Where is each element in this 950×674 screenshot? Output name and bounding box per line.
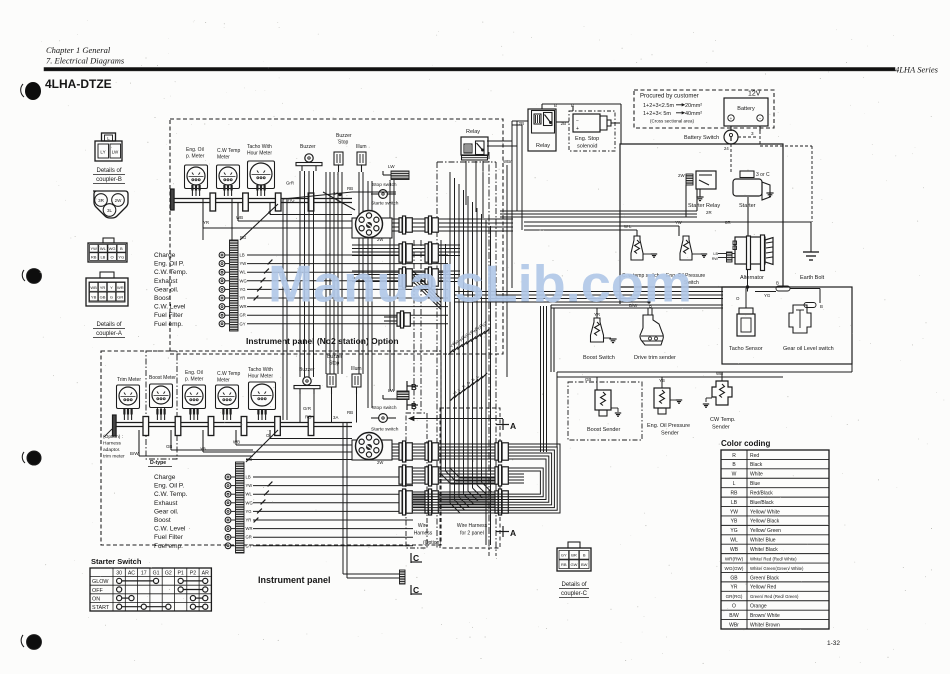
- top harness connector row 2: [399, 242, 438, 264]
- round coupler 3R 2W 3L: [93, 191, 128, 218]
- svg-text:White/ Brown: White/ Brown: [750, 622, 780, 628]
- wire count tick marks lower: [450, 373, 487, 401]
- details of coupler-B label: [93, 168, 125, 184]
- rotated wire id labels lower: [453, 375, 480, 396]
- svg-text:Details of: Details of: [561, 582, 586, 588]
- color coding table: [721, 439, 829, 629]
- svg-text:YG: YG: [246, 509, 252, 514]
- svg-text:Yellow/ Red: Yellow/ Red: [750, 585, 776, 591]
- svg-text:Boost Sender: Boost Sender: [587, 427, 620, 433]
- boost switch sub box: [551, 305, 723, 372]
- bottom harness wire row 2: [413, 468, 495, 483]
- svg-text:Instrument panel: Instrument panel: [258, 575, 331, 585]
- engine supply wires: [524, 197, 811, 236]
- boost meter (bottom panel): [149, 375, 176, 420]
- svg-text:L: L: [733, 481, 736, 487]
- svg-text:WL: WL: [730, 538, 738, 544]
- rotated wire id labels upper: [450, 320, 489, 348]
- svg-text:YW: YW: [246, 483, 253, 488]
- coupler-C connector detail: [557, 542, 591, 571]
- relay1 output wires: [466, 141, 517, 218]
- svg-text:40mm²: 40mm²: [685, 111, 702, 117]
- boost sender dashed box: [568, 382, 642, 440]
- svg-text:4LHA-DTZE: 4LHA-DTZE: [45, 77, 112, 91]
- B arrow reference 1: [407, 381, 418, 392]
- trim meter (bottom panel): [117, 377, 142, 420]
- svg-text:Sender: Sender: [712, 425, 730, 431]
- svg-text:coupler-B: coupler-B: [96, 177, 122, 183]
- svg-text:WB: WB: [730, 547, 739, 553]
- svg-text:Boost: Boost: [154, 295, 171, 302]
- bottom list tick marks: [254, 482, 273, 523]
- bottom harness connector column 3: [495, 441, 508, 515]
- svg-text:coupler-A: coupler-A: [96, 331, 122, 337]
- svg-text:O: O: [736, 296, 740, 301]
- starter relay feed wires: [500, 185, 697, 217]
- svg-text:A: A: [510, 528, 516, 538]
- svg-text:White/ Blue: White/ Blue: [750, 538, 776, 544]
- svg-text:YR: YR: [100, 285, 106, 290]
- eng oil p meter (bottom panel): [183, 370, 206, 420]
- boost switch (engine): [583, 308, 617, 361]
- page title 4LHA-DTZE: [45, 77, 112, 91]
- header chapter title: [46, 45, 125, 66]
- starter key switch (bottom panel): [352, 427, 399, 466]
- svg-text:WG: WG: [240, 278, 247, 283]
- earth bolt: [800, 222, 825, 281]
- starter switch table: [90, 557, 211, 611]
- svg-text:C.W. Level: C.W. Level: [154, 526, 186, 533]
- tacho sensor: [729, 288, 763, 352]
- relay (engine): [519, 103, 557, 149]
- binding hole dot 3: [22, 451, 41, 465]
- top harness bundle row 3: [352, 271, 460, 282]
- binding hole dot 4: [21, 635, 41, 650]
- svg-text:Green/ Red (Red/ Green): Green/ Red (Red/ Green): [750, 594, 799, 599]
- eng oil pressure switch (engine): [666, 236, 707, 286]
- svg-text:GR(RG): GR(RG): [726, 594, 743, 599]
- svg-text:Gear oil.: Gear oil.: [154, 508, 179, 515]
- coupler-A connector detail lower: [86, 272, 128, 306]
- svg-text:Orange: Orange: [750, 604, 767, 610]
- RG diagonal wire top panel: [240, 204, 278, 240]
- svg-text:Alternator: Alternator: [740, 275, 764, 281]
- svg-text:WR: WR: [246, 526, 253, 531]
- svg-text:(Cross sectional area): (Cross sectional area): [650, 119, 695, 124]
- svg-text:LB: LB: [240, 253, 245, 258]
- bottom panel annunciator list: [154, 474, 235, 550]
- svg-text:p. Meter: p. Meter: [186, 154, 205, 160]
- top panel annunciator list: [154, 252, 229, 328]
- svg-text:Red/Black: Red/Black: [750, 490, 773, 496]
- svg-text:LW: LW: [112, 150, 119, 155]
- harness row2 stubs: [508, 474, 524, 483]
- svg-text:START: START: [92, 605, 110, 611]
- svg-text:Tacho Sensor: Tacho Sensor: [729, 346, 763, 352]
- svg-text:O: O: [732, 604, 736, 610]
- svg-text:Fuel emp.: Fuel emp.: [154, 321, 183, 328]
- svg-text:Stop switch: Stop switch: [372, 405, 397, 411]
- caption instrument panel: [258, 575, 331, 585]
- svg-text:Fuel Filter: Fuel Filter: [154, 312, 184, 319]
- svg-text:WR: WR: [117, 285, 124, 290]
- svg-text:YG: YG: [730, 528, 737, 534]
- coupler-B connector detail: [95, 133, 122, 161]
- svg-text:C: C: [413, 585, 419, 595]
- svg-text:Blue: Blue: [750, 481, 760, 487]
- svg-text:RB: RB: [91, 254, 97, 259]
- svg-text:Stop: Stop: [338, 140, 349, 146]
- starter relay (engine): [678, 171, 720, 215]
- svg-text:for 2 panel: for 2 panel: [460, 531, 484, 537]
- svg-text:ManualsLib.com: ManualsLib.com: [268, 256, 692, 314]
- svg-text:White/ Black: White/ Black: [750, 547, 778, 553]
- svg-text:B/W: B/W: [729, 613, 739, 619]
- svg-text:GY: GY: [240, 321, 246, 326]
- drive trim sender: [634, 308, 676, 361]
- svg-text:GB: GB: [100, 294, 106, 299]
- harness U-turn bundle: [413, 444, 560, 513]
- bottom buzzer and switch wires to bus: [300, 394, 357, 423]
- svg-text:3R: 3R: [98, 198, 105, 203]
- svg-text:2W: 2W: [377, 237, 383, 242]
- svg-text:coupler-C: coupler-C: [561, 591, 588, 597]
- svg-text:RB: RB: [347, 186, 353, 191]
- bottom panel dashed box: [101, 351, 441, 545]
- svg-text:WG: WG: [246, 500, 253, 505]
- relay vertical wires: [512, 121, 528, 288]
- svg-text:Eng. Oil P.: Eng. Oil P.: [154, 261, 184, 268]
- svg-text:Wire Harness: Wire Harness: [457, 523, 488, 529]
- details of coupler-A label: [93, 322, 125, 338]
- svg-text:Details of: Details of: [96, 322, 121, 328]
- svg-text:Buzzer: Buzzer: [300, 144, 316, 150]
- svg-text:LY: LY: [100, 150, 105, 155]
- dash-dot pair above harness box: [414, 240, 421, 413]
- svg-text:GW: GW: [571, 562, 578, 567]
- top panel list wire bundle: [247, 255, 448, 324]
- binding hole dot 1: [21, 82, 41, 100]
- trim meter option dash-dot box: [146, 351, 177, 459]
- procured by customer box: [634, 90, 774, 128]
- svg-text:YR: YR: [246, 518, 252, 523]
- svg-text:YB: YB: [91, 294, 97, 299]
- svg-text:GR: GR: [240, 313, 246, 318]
- engine sub box tacho gear: [722, 287, 852, 364]
- bottom panel bus connector blocks: [143, 417, 314, 436]
- dash-dot harness boundary left: [437, 162, 496, 548]
- option harness adaptor note: [103, 434, 125, 460]
- svg-text:Buzzer: Buzzer: [327, 354, 343, 360]
- starter motor: [725, 171, 774, 225]
- eng oil pressure meter (top panel): [185, 147, 208, 196]
- svg-text:GR: GR: [246, 535, 252, 540]
- A arrow reference 2: [496, 526, 516, 538]
- svg-text:WB: WB: [90, 285, 97, 290]
- svg-text:YB: YB: [200, 447, 206, 452]
- svg-text:W: W: [732, 472, 737, 478]
- header series label: [895, 65, 939, 75]
- top panel list connector bar: [230, 235, 247, 331]
- top panel dashed box (No2 station): [170, 119, 503, 354]
- svg-text:RW: RW: [712, 257, 719, 261]
- svg-text:Hour Meter: Hour Meter: [247, 151, 272, 157]
- svg-text:LW: LW: [388, 164, 395, 169]
- svg-text:1+2+3<2.5m: 1+2+3<2.5m: [643, 103, 674, 109]
- svg-text:Trim Meter: Trim Meter: [117, 377, 141, 383]
- bottom bus end cap: [104, 415, 116, 437]
- binding hole dot 2: [22, 269, 41, 284]
- svg-text:BR: BR: [571, 553, 577, 558]
- svg-text:Yellow/ Black: Yellow/ Black: [750, 519, 780, 525]
- svg-text:B: B: [820, 304, 823, 309]
- relay-solenoid wires: [542, 104, 621, 144]
- svg-text:WB: WB: [236, 215, 243, 220]
- svg-text:Chapter 1 General: Chapter 1 General: [46, 45, 111, 55]
- svg-text:Relay: Relay: [536, 143, 550, 149]
- A arrow reference 1: [409, 416, 516, 431]
- svg-text:RB: RB: [347, 410, 353, 415]
- svg-text:Wire: Wire: [418, 523, 428, 529]
- harness drop bundle to senders: [541, 306, 547, 452]
- svg-text:C: C: [413, 553, 419, 563]
- top panel meter bus wires: [172, 199, 352, 203]
- svg-text:G1: G1: [153, 571, 160, 577]
- svg-text:WB: WB: [233, 440, 240, 445]
- wire bus into key switch top: [283, 192, 396, 210]
- svg-text:Green/ Black: Green/ Black: [750, 575, 779, 581]
- svg-text:2W: 2W: [377, 460, 383, 465]
- cw temp meter (bottom panel): [216, 371, 241, 420]
- svg-text:ON: ON: [92, 596, 100, 602]
- svg-text:GY: GY: [482, 320, 489, 327]
- stop switch (bottom panel): [371, 405, 397, 422]
- svg-text:GLOW: GLOW: [92, 579, 109, 585]
- svg-text:GrR: GrR: [303, 406, 311, 411]
- relay (engine) outer box: [528, 109, 556, 151]
- svg-text:Battery: Battery: [737, 106, 755, 112]
- svg-text:Relay: Relay: [466, 129, 480, 135]
- buzzer (bottom panel): [294, 367, 320, 394]
- relay (panel) label: [466, 129, 480, 135]
- svg-text:LB: LB: [731, 500, 738, 506]
- svg-text:Harness: Harness: [103, 441, 121, 447]
- svg-text:WBr: WBr: [503, 159, 512, 164]
- svg-text:WG: WG: [109, 246, 116, 251]
- svg-text:Black: Black: [750, 462, 763, 468]
- svg-text:Eng. Stop: Eng. Stop: [575, 136, 599, 142]
- top harness bundle row 2: [352, 245, 460, 256]
- svg-text:(Option): (Option): [423, 540, 441, 546]
- svg-text:GrR: GrR: [286, 181, 294, 186]
- svg-text:Battery Switch: Battery Switch: [684, 135, 719, 141]
- wires top bus to bottom bus: [203, 199, 287, 420]
- eng stop solenoid dashed box: [569, 111, 615, 151]
- svg-text:Boost Switch: Boost Switch: [583, 355, 615, 361]
- svg-text:Buzzer: Buzzer: [299, 367, 315, 373]
- illum switch (bottom panel): [351, 366, 362, 394]
- svg-text:3 or C: 3 or C: [756, 172, 770, 178]
- relay (panel): [461, 137, 488, 160]
- svg-text:Fuel emp.: Fuel emp.: [154, 543, 183, 550]
- illum switch (top panel): [356, 144, 367, 172]
- svg-text:1-32: 1-32: [827, 640, 840, 647]
- details of coupler-C label: [559, 582, 589, 598]
- svg-text:YG: YG: [764, 293, 771, 298]
- svg-text:GB: GB: [166, 444, 172, 449]
- svg-text:Boost Meter: Boost Meter: [149, 375, 176, 381]
- top harness connector row 4: [384, 311, 410, 328]
- svg-text:Stop switch: Stop switch: [372, 182, 397, 188]
- svg-text:Charge: Charge: [154, 252, 176, 259]
- svg-text:Exhaust: Exhaust: [154, 278, 178, 285]
- svg-text:Details of: Details of: [96, 168, 121, 174]
- bottom harness connector column 1: [399, 441, 412, 515]
- svg-text:3L: 3L: [107, 208, 113, 213]
- top key switch output bundle: [384, 219, 513, 231]
- eng oil pressure sender: [647, 377, 690, 437]
- svg-text:WG(GW): WG(GW): [725, 566, 744, 571]
- svg-text:Yellow/ Green: Yellow/ Green: [750, 528, 781, 534]
- svg-text:Eng. Oil: Eng. Oil: [186, 147, 204, 153]
- top bus branch wires: [203, 203, 352, 228]
- svg-text:White/ Green(Green/ White): White/ Green(Green/ White): [750, 566, 804, 571]
- wires buzzer top to bottom: [300, 171, 363, 377]
- svg-text:AR: AR: [202, 571, 209, 577]
- svg-text:LB: LB: [246, 475, 251, 480]
- svg-text:Instrument panel (No2 station): Instrument panel (No2 station) Option: [246, 336, 399, 346]
- svg-text:Fuel Filter: Fuel Filter: [154, 534, 184, 541]
- svg-text:CW Temp.: CW Temp.: [710, 417, 736, 423]
- svg-text:G2: G2: [165, 571, 172, 577]
- C wire connector: [343, 423, 405, 584]
- svg-text:−: −: [759, 116, 762, 121]
- alternator wires: [736, 222, 820, 303]
- svg-text:−: −: [576, 118, 579, 124]
- engine box: [620, 144, 783, 304]
- svg-text:Exhaust: Exhaust: [154, 500, 178, 507]
- caption instrument panel No2 station option: [246, 336, 399, 346]
- svg-text:7. Electrical Diagrams: 7. Electrical Diagrams: [46, 56, 125, 66]
- svg-text:C.W Temp: C.W Temp: [217, 148, 240, 154]
- svg-text:B: B: [732, 462, 736, 468]
- svg-text:P1: P1: [177, 571, 183, 577]
- svg-text:Starter Relay: Starter Relay: [688, 203, 720, 209]
- svg-text:Eng. Oil P.: Eng. Oil P.: [154, 483, 184, 490]
- svg-text:YR: YR: [240, 296, 246, 301]
- bottom panel list wire bundle: [246, 460, 413, 546]
- svg-text:Starter Switch: Starter Switch: [91, 557, 142, 566]
- bottom harness wire row 3: [413, 492, 495, 513]
- svg-text:Earth Bolt: Earth Bolt: [800, 275, 825, 281]
- svg-text:Illum: Illum: [356, 144, 367, 150]
- svg-text:3: 3: [751, 131, 754, 136]
- svg-text:P2: P2: [190, 571, 196, 577]
- svg-text:RB: RB: [561, 562, 567, 567]
- svg-text:+: +: [730, 116, 733, 121]
- svg-text:LB: LB: [713, 252, 718, 256]
- svg-text:AC: AC: [128, 571, 135, 577]
- svg-text:Gear oil.: Gear oil.: [154, 286, 179, 293]
- svg-text:YW: YW: [730, 509, 738, 515]
- svg-text:YW: YW: [90, 246, 97, 251]
- svg-text:Yellow/ White: Yellow/ White: [750, 509, 780, 515]
- svg-text:Tacho With: Tacho With: [247, 144, 272, 150]
- starter key switch (top panel): [352, 201, 399, 243]
- svg-text:p. Meter: p. Meter: [185, 377, 204, 383]
- svg-text:2W: 2W: [115, 198, 123, 203]
- svg-text:C.W Temp: C.W Temp: [217, 371, 240, 377]
- svg-text:Starter: Starter: [739, 203, 756, 209]
- svg-text:WR: WR: [240, 304, 247, 309]
- svg-text:GY: GY: [246, 543, 252, 548]
- B arrow reference 2: [407, 400, 418, 411]
- svg-text:YR: YR: [731, 585, 738, 591]
- svg-text:RG: RG: [240, 235, 246, 240]
- svg-text:R: R: [732, 453, 736, 459]
- D-type label: [148, 460, 172, 467]
- battery 12V: [724, 91, 768, 132]
- svg-text:Buzzer: Buzzer: [336, 133, 352, 139]
- svg-text:B: B: [120, 246, 123, 251]
- LW connector (bottom panel): [383, 388, 409, 400]
- wire harness dashed box: [406, 413, 441, 548]
- svg-text:solenoid: solenoid: [577, 144, 598, 150]
- wires key switch columns: [368, 180, 394, 408]
- svg-text:Illum: Illum: [351, 366, 362, 372]
- svg-text:G: G: [110, 294, 113, 299]
- svg-text:Hour Meter: Hour Meter: [248, 374, 273, 380]
- svg-text:B: B: [583, 553, 586, 558]
- cw temp meter (top panel): [217, 148, 241, 196]
- boost sender: [585, 377, 621, 433]
- svg-text:WL: WL: [246, 492, 253, 497]
- engine sensor bus: [455, 292, 723, 309]
- svg-text:trim meter: trim meter: [103, 454, 125, 460]
- svg-text:White/ Red (Red/ White): White/ Red (Red/ White): [750, 556, 797, 561]
- svg-text:G: G: [466, 381, 471, 386]
- svg-text:Boost: Boost: [154, 517, 171, 524]
- svg-text:Drive trim sender: Drive trim sender: [634, 355, 676, 361]
- sender feed wires: [557, 364, 852, 447]
- svg-text:17: 17: [141, 571, 147, 577]
- svg-text:White: White: [750, 472, 763, 478]
- buzzer stop switch (bottom panel): [327, 354, 343, 394]
- svg-text:20mm²: 20mm²: [685, 103, 702, 109]
- svg-text:YB: YB: [731, 519, 738, 525]
- svg-text:OFF: OFF: [92, 588, 103, 594]
- LW connector (top panel): [383, 164, 409, 180]
- svg-text:Meter: Meter: [217, 155, 230, 161]
- wire labels top bus: [203, 181, 353, 226]
- bottom harness connector column 2: [425, 441, 438, 515]
- svg-text:A: A: [510, 421, 516, 431]
- svg-text:3A: 3A: [333, 415, 338, 420]
- bottom bus branch wires: [139, 430, 352, 456]
- top panel list wire labels: [240, 253, 247, 327]
- svg-text:Procured by customer: Procured by customer: [640, 94, 699, 100]
- svg-text:WL: WL: [100, 246, 107, 251]
- battery switch: [684, 130, 812, 222]
- cw temp switch (engine): [622, 236, 660, 279]
- svg-text:D-type: D-type: [150, 460, 166, 466]
- svg-text:BW: BW: [581, 562, 588, 567]
- svg-text:GB: GB: [585, 377, 591, 382]
- svg-text:Y: Y: [110, 285, 113, 290]
- top harness bend diagonals: [413, 271, 441, 310]
- svg-text:24: 24: [724, 146, 729, 151]
- svg-text:Starte switch: Starte switch: [371, 201, 399, 207]
